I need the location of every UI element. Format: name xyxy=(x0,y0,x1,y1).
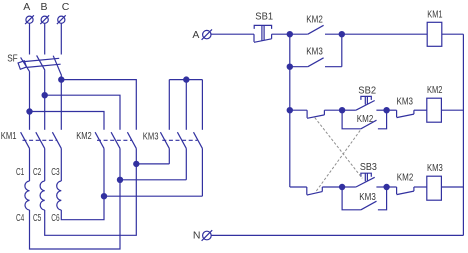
contact KM3 NC rung2 xyxy=(387,110,427,117)
wire SB2NC to node xyxy=(322,186,342,188)
wire junction to KM3 pole2 xyxy=(120,179,186,181)
terminal B xyxy=(40,15,49,24)
contactor KM2 pole1 xyxy=(95,132,104,148)
terminal C xyxy=(57,15,66,24)
wire coil KM1 to right rail xyxy=(442,33,464,35)
wire tap C to KM2 pole3 xyxy=(61,80,136,130)
wire rung1 to coil KM1 xyxy=(342,33,427,35)
label C2 xyxy=(33,166,41,178)
wire phase A drop to SF xyxy=(29,23,31,54)
svg-text:KM1: KM1 xyxy=(427,9,442,21)
contactor KM3 pole3 xyxy=(194,132,203,148)
contactor KM1 pole1 xyxy=(21,132,30,148)
node KM3 branch left xyxy=(287,64,292,69)
label KM3 rung2 xyxy=(397,96,414,108)
svg-text:KM3: KM3 xyxy=(306,45,323,57)
svg-text:C: C xyxy=(62,1,70,13)
node rung3 mid-right xyxy=(384,184,389,189)
svg-text:C1: C1 xyxy=(16,166,24,178)
wire KM1 pole3 to reactor C3 xyxy=(60,148,62,181)
pushbutton SB1 (NC) xyxy=(254,25,272,42)
svg-text:SF: SF xyxy=(7,52,18,64)
wire right rail xyxy=(462,34,464,235)
svg-text:KM2: KM2 xyxy=(397,171,414,183)
svg-text:C6: C6 xyxy=(51,212,59,224)
label KM3 coil xyxy=(427,162,443,174)
label SB1 xyxy=(255,11,273,23)
wire KM3 pole1 feed xyxy=(168,80,170,130)
wire KM3 pole3 feed xyxy=(201,80,203,130)
wire left rail xyxy=(289,34,291,187)
svg-text:C2: C2 xyxy=(33,166,41,178)
node KM2 pole3 / KM3 pole1 xyxy=(134,161,139,166)
wire KM3 star bar xyxy=(169,79,202,81)
node KM2 pole1 / KM3 pole3 xyxy=(101,194,106,199)
wire A to SB1 xyxy=(211,33,254,35)
svg-text:KM3: KM3 xyxy=(427,162,443,174)
node rung2 mid-right xyxy=(384,108,389,113)
node tap B xyxy=(42,93,47,98)
coil KM2 xyxy=(427,98,442,122)
label KM2 rung3 xyxy=(397,171,414,183)
coil KM3 xyxy=(427,176,442,200)
wire KM2 pole1 down xyxy=(103,148,105,196)
label C6 xyxy=(51,212,59,224)
label SB3 xyxy=(360,161,377,173)
label SB2 xyxy=(358,84,376,96)
svg-text:C3: C3 xyxy=(51,166,59,178)
label C1 xyxy=(16,166,24,178)
label KM3 branch xyxy=(306,45,323,57)
contactor KM2 pole2 xyxy=(111,132,120,148)
label C5 xyxy=(33,212,41,224)
contact SB3 NC (rung2) xyxy=(307,110,324,118)
label phase C xyxy=(62,1,70,13)
label KM3 parallel rung3 xyxy=(359,191,376,203)
svg-text:KM3: KM3 xyxy=(359,191,376,203)
svg-text:KM3: KM3 xyxy=(143,131,159,143)
wire phase C drop to SF xyxy=(60,23,62,54)
node rung2 left xyxy=(287,108,292,113)
contactor KM3 mechanical link xyxy=(162,139,197,141)
terminal control A xyxy=(202,29,212,39)
svg-text:KM3: KM3 xyxy=(397,96,414,108)
wire C5 bottom loop to KM2 pole3 riser xyxy=(45,164,137,235)
label control A xyxy=(192,29,199,41)
contact KM2 NO rung1 xyxy=(290,25,342,34)
contactor KM2 label xyxy=(76,130,92,142)
wire rung3 start xyxy=(290,186,307,188)
node rung1 right xyxy=(339,32,344,37)
contact KM2 NO parallel rung2 xyxy=(342,110,387,129)
node tap A xyxy=(27,109,32,114)
wire KM3 pole1 down xyxy=(168,148,170,164)
wire coil KM2 to right rail xyxy=(441,109,463,111)
wire SB3NC to node xyxy=(324,109,342,111)
node KM2 pole2 / KM3 pole2 xyxy=(117,177,122,182)
svg-text:KM2: KM2 xyxy=(427,84,443,96)
label N xyxy=(193,230,201,242)
wire tap B to KM2 pole2 xyxy=(45,95,120,130)
contactor KM3 pole1 xyxy=(160,132,169,148)
wire KM1 pole2 to reactor C2 xyxy=(44,148,46,181)
contactor KM3 label xyxy=(143,131,159,143)
label phase B xyxy=(41,1,48,13)
svg-text:A: A xyxy=(23,1,30,13)
contact SB2 NC (rung3) xyxy=(307,187,323,195)
wire KM2 pole2 down xyxy=(119,148,121,179)
coil KM1 xyxy=(427,22,442,46)
contactor KM1 pole2 xyxy=(36,132,45,148)
contact KM3 NO parallel rung3 xyxy=(342,187,387,210)
reactor coil C1-C4 xyxy=(25,181,30,210)
svg-text:SB2: SB2 xyxy=(358,84,376,96)
reactor coil C2-C5 xyxy=(40,181,45,210)
wire phase B: SF to KM1 pole2 xyxy=(44,70,46,129)
label KM2 rung1 xyxy=(306,14,323,26)
wire C6 bottom loop to KM2 pole1 junction xyxy=(61,196,104,220)
svg-text:KM2: KM2 xyxy=(306,14,323,26)
svg-text:KM1: KM1 xyxy=(1,130,17,142)
contact KM2 NC rung3 xyxy=(387,187,427,195)
wire phase B drop to SF xyxy=(44,23,46,54)
terminal N xyxy=(202,230,213,241)
label C3 xyxy=(51,166,59,178)
contactor KM1 pole3 xyxy=(52,132,61,148)
svg-text:A: A xyxy=(192,29,199,41)
svg-text:KM2: KM2 xyxy=(76,130,92,142)
interlock dashed link SB2 xyxy=(316,129,361,191)
wire junction to KM3 pole1 xyxy=(136,163,169,165)
label KM2 coil xyxy=(427,84,443,96)
wire SB1 to node xyxy=(272,33,290,35)
wire junction to KM3 pole3 xyxy=(104,195,202,197)
wire KM3 pole2 down xyxy=(185,148,187,179)
label KM1 coil xyxy=(427,9,442,21)
label SF xyxy=(7,52,18,64)
wire KM2 pole3 down xyxy=(135,148,137,164)
svg-text:N: N xyxy=(193,230,201,242)
wire KM3 pole2 feed xyxy=(185,80,187,130)
contactor KM3 pole2 xyxy=(177,132,186,148)
svg-text:C4: C4 xyxy=(16,212,24,224)
wire phase C: SF to KM1 pole3 xyxy=(60,76,62,130)
svg-text:B: B xyxy=(41,1,48,13)
node rung2 mid-left xyxy=(340,108,345,113)
terminal A xyxy=(25,15,34,24)
node rung1 left xyxy=(287,32,292,37)
reactor coil C3-C6 xyxy=(57,181,62,210)
interlock dashed link SB3 xyxy=(315,118,363,179)
contact KM3 NO branch xyxy=(290,34,342,66)
contactor KM1 mechanical link xyxy=(23,139,58,141)
wire tap A to KM2 pole1 xyxy=(30,112,105,130)
node rung3 mid-left xyxy=(340,184,345,189)
wire N line xyxy=(211,234,463,236)
svg-text:SB3: SB3 xyxy=(360,161,377,173)
wire C4 bottom loop to KM2 pole1 riser xyxy=(30,180,121,249)
node tap C xyxy=(59,77,64,82)
label phase A xyxy=(23,1,30,13)
svg-text:SB1: SB1 xyxy=(255,11,273,23)
contactor KM2 mechanical link xyxy=(97,139,132,141)
pushbutton SB3 (NO) xyxy=(342,173,387,187)
svg-text:C5: C5 xyxy=(33,212,41,224)
circuit breaker SF xyxy=(18,55,62,75)
wire phase A: SF to KM1 pole1 xyxy=(29,72,31,130)
wire KM1 pole1 to reactor C1 xyxy=(29,148,31,181)
wire KM3 pole3 down xyxy=(201,148,203,196)
contactor KM2 pole3 xyxy=(127,132,136,148)
label KM2 parallel rung2 xyxy=(357,113,374,125)
wire rung2 start xyxy=(290,109,307,111)
wire coil KM3 to right rail xyxy=(441,186,463,188)
pushbutton SB2 (NO) xyxy=(342,96,387,110)
node KM3 star bar xyxy=(184,77,189,82)
contactor KM1 label xyxy=(1,130,17,142)
label C4 xyxy=(16,212,24,224)
